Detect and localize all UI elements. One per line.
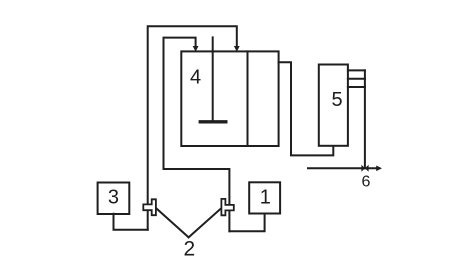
- valve 6 bowtie right half: [365, 165, 369, 172]
- outflow pipe from vessel 4 to box 5: [279, 62, 334, 155]
- leader line from valve 2b to label 2: [189, 208, 222, 237]
- vessel 4 internal divider: [247, 51, 249, 146]
- valve 6 bowtie left half: [361, 165, 365, 172]
- arrowhead of discharge line: [376, 166, 382, 172]
- pipe from valve 2a up over to vessel 4 (outer feed line): [148, 26, 237, 229]
- discharge line with arrow: [308, 167, 377, 169]
- arrowhead into vessel 4 (inner feed): [193, 46, 199, 52]
- svg-text:6: 6: [361, 174, 370, 191]
- box 1 outline: [249, 182, 280, 213]
- leader line from valve 2a to label 2: [156, 208, 188, 237]
- fitting lines on box 5 (middle): [348, 78, 365, 80]
- svg-text:3: 3: [108, 187, 119, 209]
- connector pipe from box 3 to outer feed line: [114, 214, 148, 230]
- stirrer paddle: [200, 120, 226, 123]
- fitting lines on box 5 (bottom): [348, 86, 365, 88]
- svg-text:2: 2: [184, 237, 196, 260]
- stirrer shaft: [212, 37, 214, 121]
- pipe from valve 2b up over to vessel 4 (inner feed line): [164, 38, 230, 232]
- box 5 outline: [319, 65, 348, 146]
- svg-text:4: 4: [190, 67, 201, 89]
- stopcock valve 2b on inner feed line: [221, 199, 233, 215]
- stopcock valve 2a on outer feed line: [143, 199, 156, 215]
- arrowhead into vessel 4 (outer feed): [234, 46, 240, 52]
- pipe from box 5 fitting down to valve 6: [364, 70, 366, 168]
- svg-text:1: 1: [260, 187, 271, 209]
- vessel 4 outline: [181, 51, 278, 146]
- svg-text:5: 5: [331, 89, 342, 111]
- box 3 outline: [98, 183, 130, 215]
- fitting lines on box 5 (top): [348, 69, 365, 71]
- connector pipe from box 1 to inner feed line: [229, 214, 264, 232]
